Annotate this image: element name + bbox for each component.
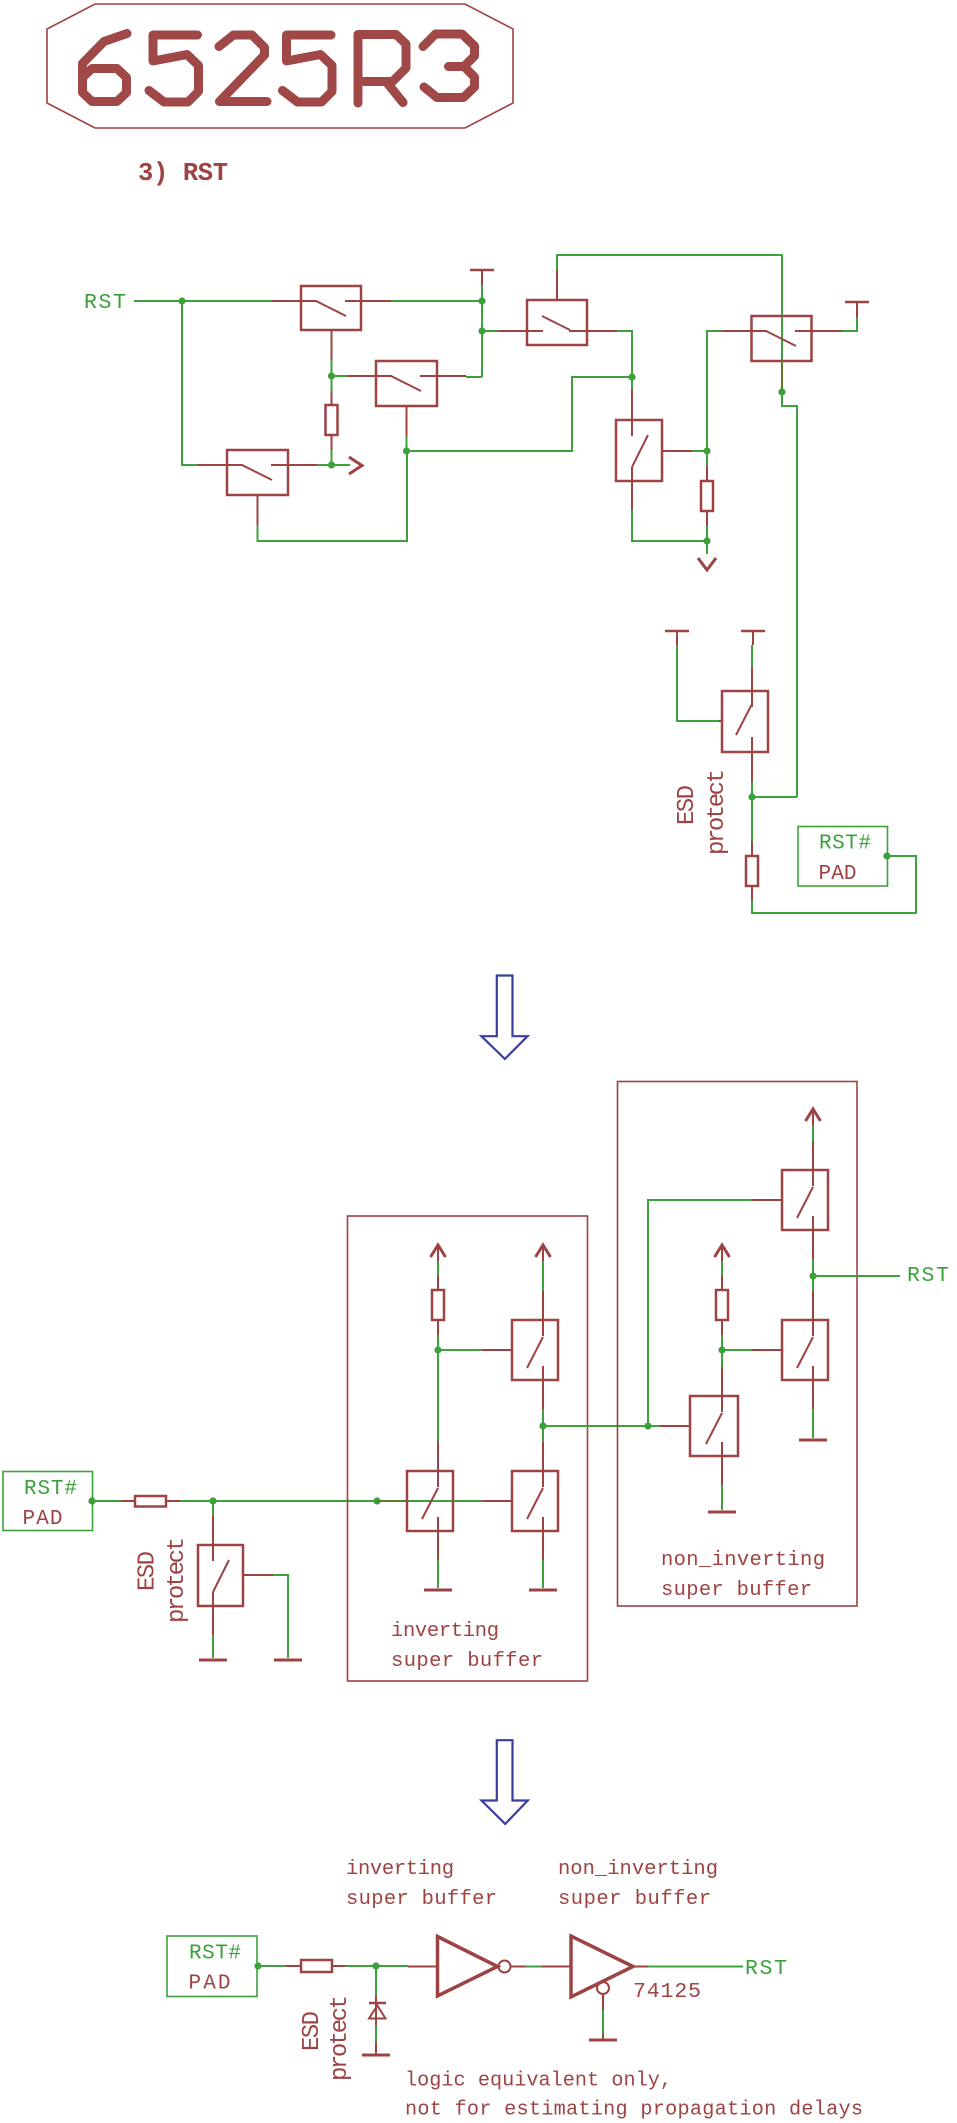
inverter U1 <box>408 1937 525 1997</box>
junction J8 <box>778 388 785 395</box>
svg-text:super buffer: super buffer <box>346 1888 497 1911</box>
power VDD T-bar <box>470 270 494 285</box>
ground <box>424 1589 452 1592</box>
transistor Q1 <box>272 286 391 360</box>
junction <box>178 297 185 304</box>
wire J11 to J12 <box>213 1500 377 1502</box>
wire VDD to Q10 <box>542 1261 544 1291</box>
wire Q14 bottom to ground <box>812 1409 814 1438</box>
SECTION: logo <box>47 4 513 188</box>
svg-text:non_inverting: non_inverting <box>558 1858 718 1881</box>
junction pad pin <box>254 1962 261 1969</box>
wire Q1 drain to VDD node <box>391 300 482 302</box>
wire J9 down to R3 <box>751 797 753 841</box>
wire Q11 bottom to ground <box>542 1560 544 1588</box>
wire VDD to R4 <box>437 1261 439 1275</box>
wire pad to R6 <box>93 1500 121 1502</box>
junction J17 <box>718 1346 725 1353</box>
resistor R6 <box>121 1496 180 1507</box>
resistor R2 <box>701 466 713 526</box>
non inverting buffer outline box <box>618 1082 858 1607</box>
transistor Q5 <box>616 390 692 510</box>
resistor R5 <box>716 1275 728 1335</box>
resistor R7 <box>286 1960 345 1972</box>
wire VDD stem <box>481 285 483 301</box>
ground <box>589 2039 617 2042</box>
junction node C <box>403 447 410 454</box>
wire J18 down to diode <box>375 1966 377 1996</box>
wire node B to arrow <box>332 464 351 466</box>
wire J15 up and to Q12 gate <box>648 1200 752 1426</box>
junction pad pin <box>883 852 890 859</box>
wire down from RST junction <box>182 301 198 465</box>
pad box RST# PAD <box>167 1936 257 1997</box>
junction J16 <box>809 1272 816 1279</box>
buffer U2 74125 <box>542 1936 648 2010</box>
svg-text:ESD: ESD <box>135 1551 162 1591</box>
resistor R4 <box>432 1275 444 1335</box>
wire J16 to RST label <box>813 1275 900 1277</box>
wire to Q2 drain <box>466 376 482 378</box>
wire Q4 drain down to J5 <box>617 331 632 377</box>
wire J11 to Q8 top <box>212 1501 214 1516</box>
svg-text:RST: RST <box>84 291 126 315</box>
wire Q3 drain to node B <box>317 464 332 466</box>
wire to Q4 source <box>482 330 498 332</box>
logo glyph R <box>358 35 406 104</box>
wire VDD to Q7 gate <box>677 645 719 721</box>
wire Q10 bottom to J14 <box>542 1409 544 1426</box>
wire VDD to Q12 <box>812 1125 814 1141</box>
wire J7 to ground arrow <box>706 541 708 554</box>
transistor Q7 <box>692 668 768 782</box>
transistor Q8 <box>198 1516 273 1635</box>
SECTION: arrows <box>481 976 527 1824</box>
junction J7 <box>703 537 710 544</box>
wire Q8 gate to ground <box>273 1575 288 1658</box>
svg-text:logic equivalent only,: logic equivalent only, <box>405 2070 672 2093</box>
transistor Q12 <box>752 1141 828 1259</box>
wire Q4 gate to Q6 gate node <box>557 255 782 392</box>
svg-text:inverting: inverting <box>391 1620 499 1643</box>
svg-text:ESD: ESD <box>674 785 701 825</box>
wire J14 down to Q11 top <box>542 1426 544 1442</box>
logo glyph 2 <box>219 35 267 102</box>
transistor Q10 <box>482 1291 558 1409</box>
ground <box>529 1589 557 1592</box>
wire R6 to J11 <box>180 1500 213 1502</box>
junction J18 <box>372 1962 379 1969</box>
svg-text:inverting: inverting <box>346 1858 454 1881</box>
wire node A to Q2 source <box>332 375 348 377</box>
wire J14 to J15 <box>543 1425 648 1427</box>
svg-text:super buffer: super buffer <box>661 1579 812 1602</box>
ground <box>362 2054 390 2057</box>
blue flow arrow 2 <box>482 1740 528 1824</box>
wire Q3 gate to node C <box>258 451 408 541</box>
wire Q5 bottom to J7 <box>632 510 707 541</box>
resistor R3 <box>746 841 758 900</box>
resistor R1 <box>326 391 338 450</box>
signal arrow right <box>349 457 362 474</box>
transistor Q6 <box>722 316 842 391</box>
svg-text:non_inverting: non_inverting <box>661 1549 825 1572</box>
junction J6 <box>703 447 710 454</box>
transistor Q11 <box>482 1442 558 1560</box>
wire Q1 gate down <box>331 360 333 376</box>
power VDD T-bar <box>845 302 869 317</box>
logo glyph 3 <box>423 34 475 98</box>
SECTION: bottom schematic <box>167 1858 863 2122</box>
wire U2 output to RST <box>648 1966 743 1968</box>
power VDD T-bar ESD left <box>665 631 689 645</box>
svg-text:ESD: ESD <box>299 2011 326 2051</box>
diode D1 ESD <box>369 1996 386 2025</box>
svg-text:super buffer: super buffer <box>558 1888 711 1911</box>
transistor Q13 <box>660 1367 738 1485</box>
junction J14 <box>539 1422 546 1429</box>
wire J13 down to Q9 top <box>437 1350 439 1441</box>
svg-text:3) RST: 3) RST <box>138 159 228 188</box>
wire J17 to Q14 gate <box>722 1349 752 1351</box>
wire J8 to pad column <box>782 392 797 797</box>
power VDD arrow <box>715 1245 730 1261</box>
wire U2 enable to ground <box>602 2010 604 2033</box>
wire VDD to Q7 top <box>751 645 753 668</box>
logo border octagon <box>47 4 513 128</box>
ground <box>708 1511 736 1514</box>
wire R1 bottom <box>331 450 333 465</box>
logo glyph 5 <box>283 35 333 102</box>
wire J15 to Q13 gate <box>648 1425 660 1427</box>
junction pad pin <box>88 1497 95 1504</box>
svg-text:protect: protect <box>704 769 731 855</box>
wire J5 to Q5 <box>631 377 633 390</box>
junction J12 <box>373 1497 380 1504</box>
blue flow arrow 1 <box>481 976 527 1060</box>
svg-text:RST: RST <box>745 1957 787 1981</box>
power VDD arrow <box>431 1245 446 1261</box>
wire Q12 bottom to J16 <box>812 1259 814 1276</box>
wire U1 to U2 <box>525 1966 542 1968</box>
logo glyph 6 <box>83 34 128 102</box>
junction node B <box>328 461 335 468</box>
wire J12 to Q11 gate <box>407 1500 482 1502</box>
ground <box>199 1659 227 1662</box>
wire R7 to J18 <box>345 1965 376 1967</box>
svg-text:RST#: RST# <box>819 833 871 856</box>
transistor Q3 <box>198 450 317 525</box>
power VDD T-bar ESD right <box>741 631 765 645</box>
svg-text:RST#: RST# <box>189 1943 241 1966</box>
wire R3 to pad <box>752 856 916 913</box>
ground arrow <box>698 558 716 570</box>
wire J6 up to Q6 source <box>707 331 722 451</box>
svg-text:PAD: PAD <box>23 1508 63 1531</box>
transistor Q14 <box>752 1291 828 1409</box>
wire VDD to R5 <box>721 1261 723 1275</box>
svg-text:RST#: RST# <box>24 1478 77 1501</box>
svg-text:PAD: PAD <box>819 863 857 886</box>
svg-text:protect: protect <box>327 1995 354 2081</box>
transistor Q2 <box>347 361 466 436</box>
svg-text:74125: 74125 <box>633 1980 701 2004</box>
pad box RST# PAD <box>798 827 888 887</box>
wire RST to Q1 <box>134 300 272 302</box>
svg-text:RST: RST <box>907 1264 949 1288</box>
wire diode to ground <box>375 2025 377 2042</box>
junction J5 <box>628 373 635 380</box>
wire Q7 bottom to J9 <box>751 782 753 797</box>
wire R4 to J13 <box>437 1335 439 1350</box>
wire Q6 drain to VDD <box>842 317 857 331</box>
power VDD arrow <box>536 1245 551 1261</box>
wire VDD column <box>481 301 483 377</box>
ground stub <box>602 2033 604 2039</box>
wire J9 to pad column <box>752 796 797 798</box>
junction <box>478 297 485 304</box>
pad box RST# PAD <box>3 1472 93 1531</box>
svg-text:PAD: PAD <box>189 1973 231 1996</box>
wire J6 to R2 <box>706 451 708 466</box>
transistor Q4 <box>498 270 617 345</box>
SECTION: middle schematic <box>3 1082 949 1682</box>
wire R5 to J17 <box>721 1335 723 1350</box>
junction node A <box>328 372 335 379</box>
ground stub <box>375 2042 377 2054</box>
wire Q9 bottom to ground <box>437 1560 439 1588</box>
wire pad to R7 <box>258 1965 286 1967</box>
junction J13 <box>434 1346 441 1353</box>
wire J16 down to Q14 <box>812 1276 814 1291</box>
svg-text:not for estimating propagation: not for estimating propagation delays <box>405 2099 863 2122</box>
wire J17 down to Q13 top <box>721 1350 723 1367</box>
junction J9 <box>748 793 755 800</box>
wire node A down to R1 <box>331 376 333 391</box>
SECTION: top schematic <box>84 255 916 913</box>
ground <box>799 1439 827 1442</box>
wire R2 bottom <box>706 526 708 541</box>
svg-text:super buffer: super buffer <box>391 1650 543 1673</box>
wire J18 to inverter input <box>376 1965 408 1967</box>
junction J11 <box>209 1497 216 1504</box>
power VDD arrow <box>806 1109 821 1125</box>
junction J15 <box>644 1422 651 1429</box>
wire Q13 bottom to ground <box>721 1485 723 1510</box>
transistor Q9 <box>407 1441 453 1560</box>
wire Q2 gate down <box>406 436 408 451</box>
inverting buffer outline box <box>348 1216 588 1681</box>
wire Q8 bottom to ground <box>212 1635 214 1658</box>
wire over Q9 gate (overlap) <box>377 1500 407 1502</box>
logo glyph 5 <box>149 35 199 102</box>
wire Q5 gate to J6 <box>692 450 707 452</box>
wire node C to J5 <box>407 377 633 451</box>
junction <box>478 327 485 334</box>
ground <box>274 1659 302 1662</box>
wire J13 to Q10 gate <box>438 1349 482 1351</box>
svg-text:protect: protect <box>164 1537 191 1623</box>
